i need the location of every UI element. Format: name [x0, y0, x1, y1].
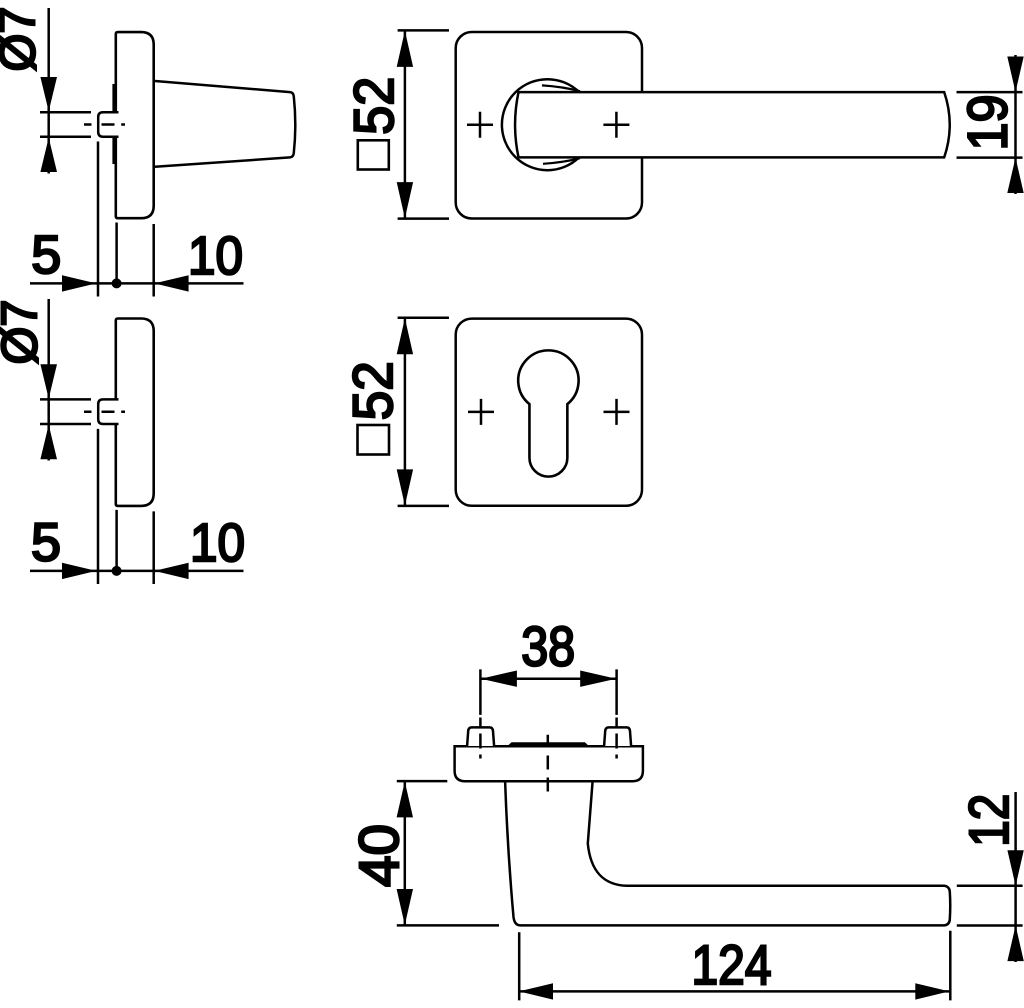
dim line diameter 7	[47, 8, 50, 174]
svg-text:Ø7: Ø7	[0, 7, 46, 72]
arrow down 19	[1007, 57, 1023, 93]
extension lines d7	[40, 399, 91, 424]
screw cross right	[603, 112, 629, 138]
spindle plate	[507, 742, 590, 747]
arrow up 19	[1007, 158, 1023, 193]
svg-text:52: 52	[342, 77, 405, 135]
arrow left	[154, 563, 188, 579]
handle body	[505, 781, 950, 925]
arrow right	[62, 275, 96, 291]
dim line 124	[519, 990, 950, 993]
arrow down 12	[1007, 850, 1023, 886]
svg-text:40: 40	[347, 824, 410, 887]
dim line 38	[481, 677, 617, 680]
screw cross left	[467, 112, 493, 138]
arrow up	[397, 318, 413, 354]
svg-text:19: 19	[956, 95, 1019, 151]
dim line 52	[404, 30, 407, 218]
square rose	[456, 319, 642, 506]
dim 5/10 baseline	[30, 282, 244, 285]
arrow down	[397, 469, 413, 505]
dim line 52	[404, 318, 407, 506]
svg-text:38: 38	[521, 615, 575, 678]
svg-text:10: 10	[190, 513, 245, 573]
svg-text:5: 5	[31, 513, 61, 573]
arrow down	[397, 182, 413, 218]
dim 52 extension lines	[398, 318, 449, 506]
lever grip cone	[155, 81, 295, 167]
arrow up	[40, 138, 57, 172]
screw left	[467, 727, 494, 746]
lever bar	[515, 92, 950, 157]
svg-text:12: 12	[957, 794, 1020, 847]
square symbol	[358, 425, 390, 455]
backplate strip	[112, 84, 118, 164]
junction dot	[112, 278, 122, 288]
rose side	[116, 319, 154, 506]
screw cross right	[604, 399, 630, 425]
rose R1 side	[116, 32, 154, 218]
arrow down	[40, 77, 57, 111]
arrow down 40	[397, 889, 413, 925]
centerline neck	[84, 410, 125, 413]
dim 12 extension lines	[957, 886, 1023, 926]
arrow left 38	[481, 671, 517, 687]
dim 52 extension lines	[398, 30, 449, 218]
svg-text:5: 5	[31, 225, 61, 285]
dim line 19	[1014, 55, 1017, 194]
dim 124 extension lines	[519, 931, 950, 1001]
neck taper line bottom	[543, 158, 580, 164]
arrow up 12	[1007, 926, 1023, 962]
screw centerline right	[615, 718, 618, 759]
square symbol	[358, 140, 389, 169]
extension lines 5/10	[98, 142, 154, 297]
dim line 12	[1014, 792, 1017, 962]
arrow left 124	[519, 983, 553, 999]
arrow up	[397, 31, 413, 67]
arrow left	[154, 275, 188, 291]
extension lines d7	[40, 112, 91, 137]
screw centerline left	[479, 718, 482, 759]
arrow up 40	[397, 782, 413, 818]
square rose	[456, 32, 642, 219]
dim line 40	[404, 781, 407, 925]
screw right	[604, 727, 631, 746]
extension lines 5/10	[98, 429, 154, 584]
arrow right	[62, 563, 96, 579]
svg-text:Ø7: Ø7	[0, 300, 48, 365]
arrow right 124	[915, 983, 949, 999]
neck stub	[98, 399, 118, 424]
rose side	[455, 746, 643, 781]
screw cross left	[468, 399, 494, 425]
arrow up	[40, 425, 57, 459]
collar circle	[502, 79, 593, 170]
svg-text:52: 52	[341, 361, 404, 420]
euro keyhole	[518, 350, 578, 476]
arrow down	[40, 364, 57, 398]
dim 38 extension lines	[480, 669, 616, 715]
neck taper line top	[542, 85, 580, 91]
junction dot	[112, 566, 122, 576]
centerline neck	[84, 123, 125, 126]
arrow right 38	[580, 671, 616, 687]
svg-text:10: 10	[188, 226, 243, 286]
dim line diameter 7	[47, 299, 50, 461]
dim 19 extension lines	[957, 92, 1023, 158]
dim 5/10 baseline	[30, 570, 244, 573]
neck stub	[98, 112, 118, 137]
dim 40 extension lines	[397, 781, 499, 925]
rose centerline	[547, 735, 550, 792]
svg-text:124: 124	[692, 933, 772, 996]
